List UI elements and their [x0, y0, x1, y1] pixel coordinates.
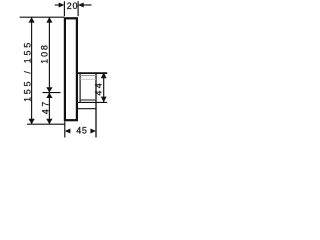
svg-text:44: 44 — [94, 81, 104, 96]
top arrow (points up) — [101, 72, 107, 78]
dimension line — [103, 72, 105, 102]
svg-text:45: 45 — [76, 126, 87, 136]
top arrow (points up) — [46, 17, 52, 22]
bottom arrow (points down) — [46, 119, 52, 124]
knob front face + extension line for 45 — [95, 72, 97, 137]
knob grip ring (upper, gray) — [80, 75, 96, 77]
junction arrow upper (points down to split) — [46, 87, 52, 92]
left tail — [55, 4, 60, 6]
dimension line — [31, 17, 33, 124]
left arrow (points right) — [59, 3, 65, 8]
dimension line — [48, 17, 50, 124]
bottom extension line (left) — [27, 123, 65, 125]
junction tick line — [43, 92, 61, 94]
bottom arrow (points down) — [29, 119, 35, 124]
junction arrow lower (points up to split) — [46, 93, 52, 98]
knob base collar line — [79, 72, 81, 102]
dimension 108 / 47 (inner left) — [39, 17, 60, 124]
svg-text:47: 47 — [41, 99, 51, 114]
dimension 155 / 155 (outer left) — [22, 17, 34, 124]
svg-text:155 / 155: 155 / 155 — [22, 40, 32, 102]
svg-text:20: 20 — [67, 1, 78, 11]
extension line left (wall face) — [64, 121, 66, 137]
right tail — [83, 4, 91, 6]
right arrow (points left) — [78, 3, 84, 8]
top extension line (plate top edge, left) — [20, 16, 64, 18]
svg-text:108: 108 — [39, 43, 49, 63]
extension line left (plate back face) — [63, 1, 65, 16]
knob lower base section bottom edge — [78, 108, 97, 110]
bottom arrow (points down) — [101, 97, 107, 103]
knob chamfer line (lower) — [80, 99, 96, 101]
trim plate (side profile) — [65, 18, 77, 120]
knob top edge + extension line for 44 — [78, 72, 107, 74]
right arrow (points right) — [90, 129, 96, 134]
top arrow (points up) — [29, 17, 35, 22]
knob bottom edge + extension line for 44 — [78, 101, 107, 103]
dimension 20 (top) — [55, 1, 92, 16]
left arrow (points left) — [65, 129, 71, 134]
handle knob (side profile) — [78, 72, 107, 137]
extension line right (plate front face) — [77, 1, 79, 16]
dimension 45 (bottom) — [65, 121, 96, 137]
dimension 44 (right of knob) — [94, 72, 107, 102]
knob grip ring (upper 2, light gray) — [80, 78, 96, 80]
